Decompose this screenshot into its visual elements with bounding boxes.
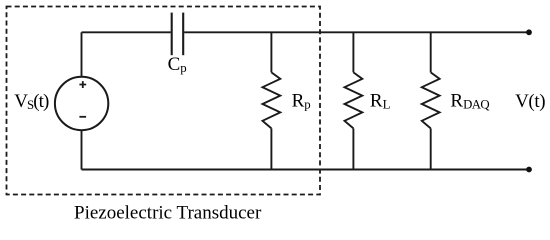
svg-text:Piezoelectric Transducer: Piezoelectric Transducer bbox=[74, 203, 262, 224]
svg-text:V(t): V(t) bbox=[515, 91, 545, 112]
